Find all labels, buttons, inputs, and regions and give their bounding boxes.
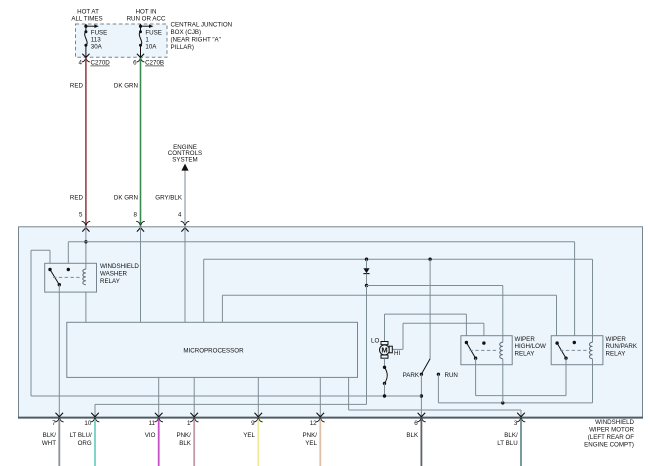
wire VIO bbox=[145, 420, 159, 466]
svg-text:8: 8 bbox=[134, 212, 138, 219]
svg-text:YEL: YEL bbox=[305, 440, 317, 447]
svg-text:(NEAR RIGHT "A": (NEAR RIGHT "A" bbox=[171, 36, 221, 43]
svg-text:HOT IN: HOT IN bbox=[136, 9, 157, 16]
node pin5 junction bbox=[84, 240, 87, 243]
svg-text:MICROPROCESSOR: MICROPROCESSOR bbox=[183, 348, 244, 355]
svg-text:(LEFT REAR OF: (LEFT REAR OF bbox=[588, 434, 635, 441]
connector C270D bbox=[79, 58, 111, 66]
svg-text:FUSE: FUSE bbox=[91, 29, 108, 36]
svg-text:BLK: BLK bbox=[406, 432, 419, 439]
wire H1 bus to relays bbox=[68, 242, 574, 343]
wire motor HI feed bbox=[392, 323, 484, 349]
svg-text:BOX (CJB): BOX (CJB) bbox=[171, 29, 202, 36]
connector pin 3 bottom bbox=[514, 413, 525, 427]
engine controls system arrow bbox=[168, 144, 202, 171]
svg-text:RED: RED bbox=[70, 194, 84, 201]
wire relay outputs tie bbox=[476, 358, 566, 395]
svg-text:11: 11 bbox=[149, 420, 156, 427]
wire PNK/YEL bbox=[303, 420, 321, 466]
label HOT AT ALL TIMES bbox=[71, 9, 102, 23]
svg-text:WINDSHIELD: WINDSHIELD bbox=[595, 419, 634, 426]
relay K2 wiper high/low relay bbox=[461, 336, 512, 365]
wire LT BLU/ORG bbox=[70, 420, 95, 466]
svg-text:BLK/: BLK/ bbox=[504, 432, 518, 439]
svg-text:4: 4 bbox=[79, 60, 83, 67]
svg-text:BLK: BLK bbox=[179, 440, 192, 447]
connector pin 9 bottom bbox=[251, 413, 262, 427]
svg-text:6: 6 bbox=[133, 60, 137, 67]
svg-text:4: 4 bbox=[178, 212, 182, 219]
svg-text:RELAY: RELAY bbox=[606, 351, 626, 358]
wire park switch feed bbox=[429, 259, 431, 359]
svg-text:113: 113 bbox=[91, 36, 101, 43]
wire motor LO feed bbox=[385, 314, 467, 342]
svg-text:GRY/BLK: GRY/BLK bbox=[155, 194, 183, 201]
svg-text:PILLAR): PILLAR) bbox=[171, 44, 194, 51]
node park feed bbox=[428, 258, 431, 261]
microprocessor U1 bbox=[67, 322, 358, 377]
svg-text:6: 6 bbox=[414, 420, 418, 427]
svg-text:RUN OR ACC: RUN OR ACC bbox=[127, 16, 166, 23]
svg-text:LT BLU/: LT BLU/ bbox=[70, 432, 92, 439]
svg-text:RELAY: RELAY bbox=[100, 278, 120, 285]
svg-text:M: M bbox=[381, 346, 387, 355]
connector pin 7 bottom bbox=[52, 413, 63, 427]
wire micro to pin 11 bbox=[158, 377, 160, 417]
wire BLK bbox=[406, 420, 421, 466]
svg-text:LT BLU: LT BLU bbox=[497, 440, 517, 447]
svg-text:ALL TIMES: ALL TIMES bbox=[71, 16, 102, 23]
wire micro to pin 12 bbox=[319, 377, 321, 417]
fuse 113 30A bbox=[82, 24, 107, 57]
svg-text:12: 12 bbox=[310, 420, 317, 427]
svg-text:RUN: RUN bbox=[445, 372, 458, 379]
diode D1 bbox=[363, 258, 369, 288]
connector pin 6 bottom bbox=[414, 413, 425, 427]
node HL coil bottom bbox=[501, 401, 504, 404]
wire diode down to H6 bbox=[366, 286, 368, 405]
svg-text:5: 5 bbox=[79, 212, 83, 219]
svg-text:7: 7 bbox=[52, 420, 56, 427]
svg-text:HI: HI bbox=[394, 350, 400, 357]
wire BLK/WHT bbox=[42, 420, 59, 466]
connector pin 1 bottom bbox=[187, 413, 198, 427]
switch RUN bbox=[437, 372, 458, 379]
svg-text:FUSE: FUSE bbox=[145, 29, 162, 36]
label windshield washer relay bbox=[100, 263, 139, 285]
wire pin5 feed vertical bbox=[85, 227, 87, 322]
svg-text:PNK/: PNK/ bbox=[303, 432, 318, 439]
wire H3 bus bbox=[222, 295, 556, 343]
connector pin 8 top bbox=[134, 212, 145, 232]
svg-text:1: 1 bbox=[187, 420, 191, 427]
svg-text:WHT: WHT bbox=[42, 440, 56, 447]
wire diode to HL relay coil bbox=[367, 286, 503, 336]
wiper control module box bbox=[18, 227, 643, 418]
label CENTRAL JUNCTION BOX bbox=[171, 22, 233, 51]
svg-text:HIGH/LOW: HIGH/LOW bbox=[515, 343, 546, 350]
svg-text:WIPER MOTOR: WIPER MOTOR bbox=[589, 427, 634, 434]
connector pin 10 bottom bbox=[84, 413, 99, 427]
wire PNK/BLK bbox=[176, 420, 194, 466]
wire park pivot to pin 6 bbox=[420, 374, 422, 417]
relay K1 windshield washer relay bbox=[45, 263, 97, 292]
connector pin 12 bottom bbox=[310, 413, 325, 427]
wire washer relay output to pin 7 bbox=[58, 285, 60, 418]
wire HL coil bottom bbox=[502, 365, 504, 403]
svg-text:RELAY: RELAY bbox=[515, 351, 535, 358]
svg-text:30A: 30A bbox=[91, 43, 103, 50]
connector pin 4 top bbox=[178, 212, 189, 232]
label windshield wiper motor bbox=[584, 419, 634, 449]
connector pin 11 bottom bbox=[149, 413, 163, 427]
connector C270B bbox=[133, 58, 164, 66]
motor M1 wiper motor bbox=[371, 337, 400, 358]
wire H6 to pin 10 bbox=[95, 404, 367, 417]
svg-text:RED: RED bbox=[70, 83, 84, 90]
svg-text:VIO: VIO bbox=[145, 432, 156, 439]
svg-text:9: 9 bbox=[251, 420, 255, 427]
svg-text:PARK: PARK bbox=[403, 372, 420, 379]
connector pin 5 top bbox=[79, 212, 90, 232]
svg-text:WIPER: WIPER bbox=[515, 336, 536, 343]
svg-text:C270D: C270D bbox=[91, 60, 111, 67]
svg-text:DK GRN: DK GRN bbox=[114, 83, 138, 90]
svg-text:ORG: ORG bbox=[78, 440, 92, 447]
wire GRY/BLK to engine controls bbox=[155, 171, 185, 227]
wire RED bbox=[70, 58, 86, 227]
svg-text:PNK/: PNK/ bbox=[176, 432, 191, 439]
svg-text:10: 10 bbox=[84, 420, 91, 427]
svg-text:WASHER: WASHER bbox=[100, 270, 127, 277]
wire pin8 to microprocessor bbox=[140, 227, 142, 322]
svg-text:ENGINE COMPT): ENGINE COMPT) bbox=[584, 442, 634, 449]
label wiper high/low relay bbox=[515, 336, 546, 358]
svg-text:RUN/PARK: RUN/PARK bbox=[606, 343, 638, 350]
wire BLK/LT BLU bbox=[497, 420, 521, 466]
label HOT IN RUN OR ACC bbox=[127, 9, 166, 23]
svg-text:WIPER: WIPER bbox=[606, 336, 627, 343]
label wiper run/park relay bbox=[606, 336, 638, 358]
wire DK GRN bbox=[114, 58, 141, 227]
wire H2 bus bbox=[204, 259, 593, 336]
svg-text:LO: LO bbox=[371, 337, 379, 344]
svg-text:HOT AT: HOT AT bbox=[77, 9, 99, 16]
svg-text:BLK/: BLK/ bbox=[43, 432, 57, 439]
svg-text:DK GRN: DK GRN bbox=[114, 194, 138, 201]
svg-text:1: 1 bbox=[145, 36, 149, 43]
motor park contact bbox=[383, 358, 387, 397]
svg-text:CENTRAL JUNCTION: CENTRAL JUNCTION bbox=[171, 22, 233, 29]
svg-text:10A: 10A bbox=[145, 43, 157, 50]
svg-text:WINDSHIELD: WINDSHIELD bbox=[100, 263, 139, 270]
switch PARK bbox=[403, 359, 430, 379]
wire RUN to relay coils bbox=[438, 365, 592, 403]
wire pin4 to microprocessor bbox=[184, 227, 186, 322]
svg-text:3: 3 bbox=[514, 420, 518, 427]
svg-text:YEL: YEL bbox=[243, 432, 255, 439]
node park junction bbox=[420, 394, 423, 397]
wire YEL bbox=[243, 420, 258, 466]
wire H_park ground bus bbox=[31, 250, 421, 396]
wire micro to pin 1 bbox=[193, 377, 195, 417]
svg-text:C270B: C270B bbox=[145, 60, 164, 67]
central junction box CJB (dashed) bbox=[76, 24, 168, 57]
wire micro to pin 3 bbox=[349, 377, 521, 417]
svg-text:SYSTEM: SYSTEM bbox=[172, 157, 197, 164]
fuse 1 10A bbox=[137, 24, 162, 57]
wire micro to pin 9 bbox=[257, 377, 259, 417]
relay K3 wiper run/park relay bbox=[551, 336, 603, 365]
